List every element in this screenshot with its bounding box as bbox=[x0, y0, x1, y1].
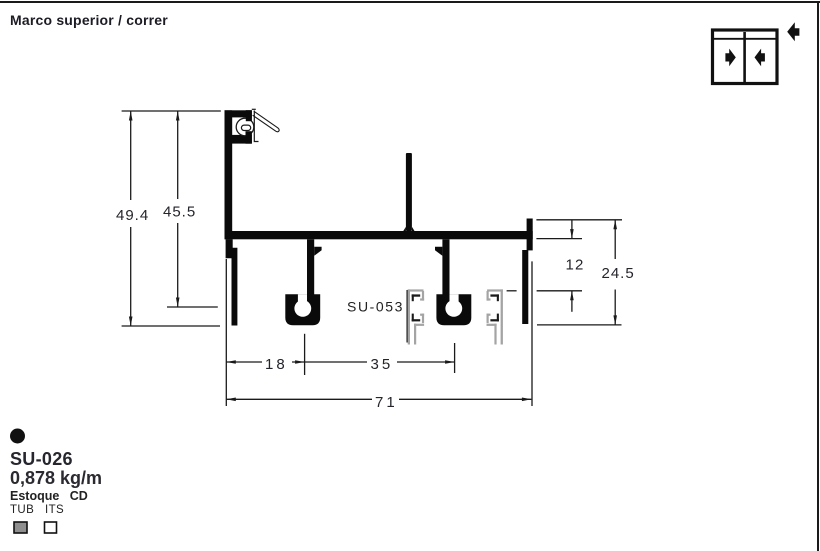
svg-text:35: 35 bbox=[371, 356, 394, 373]
svg-text:12: 12 bbox=[566, 257, 585, 274]
svg-text:24.5: 24.5 bbox=[602, 265, 635, 282]
svg-text:45.5: 45.5 bbox=[163, 204, 196, 221]
svg-text:18: 18 bbox=[265, 356, 288, 373]
svg-text:49.4: 49.4 bbox=[116, 207, 149, 224]
svg-text:71: 71 bbox=[375, 394, 398, 411]
svg-text:SU-053: SU-053 bbox=[347, 299, 404, 315]
